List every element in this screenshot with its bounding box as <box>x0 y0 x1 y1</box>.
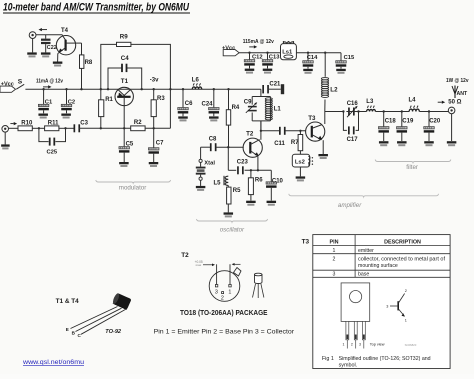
svg-text:R11: R11 <box>48 120 59 126</box>
svg-text:1W @ 12v: 1W @ 12v <box>446 78 469 84</box>
resistor R10 <box>18 126 32 131</box>
NPN transistor symbol <box>390 294 405 317</box>
svg-text:L1: L1 <box>274 106 282 112</box>
ground below C18 <box>379 141 389 146</box>
svg-text:L3: L3 <box>366 99 374 105</box>
svg-text:TO-92: TO-92 <box>105 329 122 335</box>
svg-text:DESCRIPTION: DESCRIPTION <box>384 239 421 245</box>
antenna jack <box>448 107 455 114</box>
current arrow mid <box>249 45 257 48</box>
svg-text:symbol.: symbol. <box>339 362 358 368</box>
svg-text:C13: C13 <box>269 55 280 61</box>
svg-text:SC06820: SC06820 <box>405 343 417 347</box>
resistor R6 <box>248 170 253 200</box>
wire mic to T4 base <box>36 35 66 41</box>
svg-text:R8: R8 <box>85 60 93 66</box>
svg-text:R2: R2 <box>134 120 142 126</box>
capacitor C24 <box>209 89 220 116</box>
ground below C2 <box>61 114 71 119</box>
ground below R5 <box>224 212 234 217</box>
svg-text:L2: L2 <box>330 87 338 94</box>
wire L4 to antenna <box>419 111 448 113</box>
junction dots on modulator line <box>100 127 102 129</box>
ground below C6 <box>178 116 188 121</box>
ground below T4 emitter <box>53 62 63 67</box>
wire Ls2 to ground <box>299 167 301 176</box>
ground below C10 <box>267 201 277 206</box>
modulator brace <box>96 180 171 183</box>
svg-text:50 Ω: 50 Ω <box>448 100 461 106</box>
svg-text:Simplified outline (TO-126; SO: Simplified outline (TO-126; SOT32) and <box>339 356 431 362</box>
resistor R1 <box>99 89 104 128</box>
svg-text:amplifier: amplifier <box>338 202 362 209</box>
svg-text:Pin 1 = Emitter Pin 2 = Base: Pin 1 = Emitter Pin 2 = Base Pin 3 = Col… <box>154 329 295 336</box>
svg-text:3: 3 <box>215 290 218 296</box>
title text <box>3 2 190 14</box>
ground below C1 <box>38 114 48 119</box>
capacitor C18 <box>378 112 389 142</box>
svg-text:C16: C16 <box>347 101 359 107</box>
tank circuit loop <box>252 97 270 121</box>
svg-text:S: S <box>18 78 23 85</box>
svg-text:C22: C22 <box>47 45 57 51</box>
svg-text:3: 3 <box>359 343 361 347</box>
microphone input jack <box>29 32 36 39</box>
svg-text:C8: C8 <box>209 137 217 143</box>
wire Ls1 to C15 <box>296 52 341 54</box>
table row 3 <box>333 272 370 278</box>
junction dots filter line <box>383 110 385 112</box>
ground below C5 <box>119 162 128 167</box>
wire R10 to R11 <box>32 127 44 129</box>
ground below C12 <box>245 69 255 74</box>
resistor R7 <box>298 131 303 154</box>
svg-text:C7: C7 <box>156 140 164 146</box>
ground below mic <box>27 52 37 57</box>
svg-text:T2: T2 <box>181 252 189 259</box>
inductor L6 <box>192 83 201 89</box>
resistor R9 feedback loop <box>101 42 171 89</box>
dimension arrow left <box>203 264 215 267</box>
choke Ls1 <box>281 41 297 60</box>
resistor R3 <box>151 89 156 128</box>
svg-text:C24: C24 <box>202 102 214 108</box>
crystal Xtal <box>196 147 206 186</box>
svg-text:+Vcc: +Vcc <box>1 82 14 88</box>
svg-text:1: 1 <box>333 248 336 254</box>
junction dots C16 pair <box>342 110 344 112</box>
svg-text:C20: C20 <box>429 118 441 124</box>
transistor T4 <box>56 36 81 55</box>
junction dot R7 top <box>299 130 301 132</box>
svg-text:T1 & T4: T1 & T4 <box>56 298 80 305</box>
junction dot C8 line <box>227 146 229 148</box>
wire T2 base <box>242 146 244 148</box>
svg-text:C15: C15 <box>344 55 355 61</box>
svg-text:C10: C10 <box>272 178 284 184</box>
link www.qsl.net/on6mu <box>22 360 84 366</box>
capacitor C3 <box>74 124 81 132</box>
capacitor C4 loop <box>108 64 142 89</box>
wire T3 emitter to ground <box>322 140 324 154</box>
svg-text:R1: R1 <box>105 97 113 103</box>
antenna symbol <box>452 86 458 99</box>
resistor R5 <box>227 185 231 212</box>
inductor L3 <box>367 109 376 111</box>
capacitor C5 <box>119 128 130 162</box>
ground below C19 <box>397 141 407 146</box>
output arrow <box>438 101 446 104</box>
svg-text:R7: R7 <box>291 140 299 146</box>
svg-text:L6: L6 <box>192 77 200 83</box>
resistor R4 <box>226 89 230 147</box>
svg-text:3: 3 <box>386 305 388 309</box>
ground below C20 <box>424 141 434 146</box>
T3 pin table <box>313 235 450 369</box>
capacitor C11 <box>261 127 306 135</box>
filter brace <box>375 160 451 163</box>
svg-text:R9: R9 <box>120 33 128 40</box>
junction dots on Vcc2 line <box>248 52 250 54</box>
resistor R8 <box>80 43 84 89</box>
svg-text:2: 2 <box>351 343 353 347</box>
current arrow on rail <box>43 85 52 88</box>
junction dot R6 top <box>250 169 252 171</box>
svg-text:TO18 (TO-206AA) PACKAGE: TO18 (TO-206AA) PACKAGE <box>180 310 268 317</box>
transistor T3 <box>306 122 325 141</box>
svg-text:R5: R5 <box>233 188 241 194</box>
wire T2 collector up <box>260 121 262 140</box>
wire L2 to T3 <box>324 100 326 112</box>
svg-text:Xtal: Xtal <box>204 161 215 167</box>
oscillator brace <box>197 219 268 222</box>
ground below C7 <box>149 162 159 167</box>
ground below C13 <box>263 69 273 74</box>
junction dot emitter line <box>257 169 259 171</box>
wire mic stem <box>32 39 34 53</box>
wire L3 to L4 <box>375 111 409 113</box>
wire jack stem to ground <box>4 132 6 144</box>
capacitor C20 <box>424 112 435 142</box>
svg-text:C19: C19 <box>402 118 414 124</box>
svg-text:R4: R4 <box>232 105 240 111</box>
wire Vcc2 line <box>239 52 280 54</box>
TO18 side view icon <box>253 273 264 298</box>
capacitor C25 loop <box>39 128 66 145</box>
svg-text:1: 1 <box>228 290 231 296</box>
svg-text:C1: C1 <box>45 100 53 106</box>
TO-126 package outline <box>341 283 370 349</box>
ground below C24 <box>209 116 219 121</box>
capacitor C7 <box>148 128 159 162</box>
inductor L5 <box>224 176 228 186</box>
ground below C15 <box>336 69 346 74</box>
svg-text:C23: C23 <box>237 159 249 165</box>
svg-text:C14: C14 <box>307 55 318 61</box>
svg-text:collector, connected to metal: collector, connected to metal part of <box>358 256 446 262</box>
svg-text:E: E <box>66 327 69 332</box>
input jack <box>2 126 9 133</box>
svg-text:C11: C11 <box>274 141 285 147</box>
svg-text:C18: C18 <box>385 118 397 124</box>
capacitor C8 <box>201 143 244 151</box>
ground below Xtal <box>196 186 206 191</box>
svg-text:2: 2 <box>333 256 336 262</box>
capacitor C15 <box>336 53 347 69</box>
svg-text:filter: filter <box>406 164 418 171</box>
svg-text:L5: L5 <box>214 181 222 187</box>
svg-text:2: 2 <box>221 296 224 302</box>
variable capacitor C16 <box>348 108 355 116</box>
svg-text:L4: L4 <box>409 98 417 104</box>
wire input line <box>9 127 19 129</box>
choke Ls2 <box>292 154 313 167</box>
svg-text:115mA @ 12v: 115mA @ 12v <box>243 39 275 45</box>
TO18 package top view <box>209 264 241 301</box>
wire R11 to C3 <box>59 127 74 129</box>
capacitor C12 <box>244 53 255 69</box>
resistor R2 <box>131 126 145 131</box>
svg-text:R3: R3 <box>157 96 165 102</box>
ground below C22 <box>41 52 51 57</box>
svg-text:base: base <box>358 272 369 278</box>
svg-text:Ls2: Ls2 <box>295 159 305 165</box>
resistor R11 <box>45 126 59 131</box>
ground below R6 <box>246 201 256 206</box>
svg-text:oscillator: oscillator <box>220 227 245 234</box>
table row 1 <box>333 248 375 254</box>
svg-text:C3: C3 <box>80 120 88 126</box>
svg-text:Fig 1: Fig 1 <box>322 356 334 362</box>
ground below antenna <box>447 141 457 146</box>
svg-text:mounting surface: mounting surface <box>358 263 398 269</box>
svg-text:3: 3 <box>333 272 336 278</box>
capacitor C2 <box>61 89 72 113</box>
input arrow <box>10 122 17 125</box>
capacitor C10 <box>266 170 277 200</box>
wire right column down <box>169 89 171 128</box>
svg-text:C6: C6 <box>185 101 193 107</box>
svg-text:C17: C17 <box>347 137 359 143</box>
inductor L2 <box>324 53 326 77</box>
capacitor C22 <box>41 35 51 53</box>
inductor L1 <box>265 98 272 120</box>
svg-text:C25: C25 <box>47 149 58 155</box>
inductor L4 <box>409 109 419 111</box>
capacitor C19 <box>397 112 408 142</box>
svg-text:C4: C4 <box>121 55 129 62</box>
svg-text:C21: C21 <box>269 81 281 87</box>
svg-text:modulator: modulator <box>119 185 147 192</box>
mic signal arrow <box>39 28 48 31</box>
svg-text:T3: T3 <box>308 115 316 122</box>
capacitor C6 <box>178 89 189 116</box>
svg-text:emitter: emitter <box>358 248 374 254</box>
svg-text:PIN: PIN <box>330 239 339 245</box>
capacitor C13 <box>262 53 273 69</box>
svg-text:R10: R10 <box>21 120 33 126</box>
wire R2 to R3 column <box>145 127 170 129</box>
svg-text:T4: T4 <box>61 28 69 34</box>
svg-text:T3: T3 <box>302 239 310 246</box>
dimension arrow right <box>232 263 241 266</box>
amplifier brace <box>289 194 439 197</box>
ground below input jack <box>1 144 10 149</box>
svg-text:C9: C9 <box>244 100 252 106</box>
transistor T1 <box>115 87 133 105</box>
TO-92 package drawing <box>112 292 132 309</box>
junction dot C11 line <box>260 130 262 132</box>
svg-text:10-meter band AM/CW Transmitte: 10-meter band AM/CW Transmitter, by ON6M… <box>3 2 189 14</box>
svg-text:max: max <box>196 263 202 267</box>
supply +Vcc flag left <box>0 86 16 92</box>
svg-text:ANT: ANT <box>457 91 468 97</box>
wire T3 collector up to L2 <box>324 112 326 125</box>
svg-text:1: 1 <box>405 319 407 323</box>
wire C3 to modulator line <box>79 127 131 129</box>
switch S lever <box>16 84 24 89</box>
svg-text:+Vcc: +Vcc <box>222 45 235 51</box>
ground below T3 emitter <box>318 154 328 159</box>
capacitor C17 parallel loop <box>343 112 358 135</box>
svg-text:C2: C2 <box>68 100 75 106</box>
capacitor C14 <box>303 53 314 69</box>
svg-text:2: 2 <box>405 289 407 293</box>
svg-text:C12: C12 <box>252 55 263 61</box>
supply +Vcc flag middle <box>223 50 239 56</box>
wire Vcc rail <box>25 88 261 90</box>
capacitor C21 <box>262 85 281 93</box>
wire T1 emitter down <box>123 98 125 128</box>
wire R4 column to C23 <box>227 147 229 170</box>
wire antenna jack to ground <box>451 114 453 141</box>
ground below C14 <box>303 69 313 74</box>
wire to L3 <box>346 111 366 113</box>
svg-text:C5: C5 <box>126 141 134 147</box>
wire tank bottom to collector junction <box>260 121 262 131</box>
svg-text:1: 1 <box>343 343 345 347</box>
wire tank top to rail corner <box>260 89 262 96</box>
svg-text:Ls1: Ls1 <box>282 50 293 56</box>
table row 2 <box>333 256 446 269</box>
wire T2 emitter down <box>257 156 259 170</box>
wire T4 emitter to ground <box>57 53 59 61</box>
ground wall for C21 <box>281 84 284 94</box>
ground below Ls2 <box>296 176 306 181</box>
transistor T2 <box>243 138 262 157</box>
capacitor C1 <box>38 89 49 113</box>
junction dots on Vcc rail <box>42 88 44 90</box>
svg-text:Top view: Top view <box>370 342 385 346</box>
variable capacitor C9 <box>248 106 257 112</box>
svg-text:R6: R6 <box>255 177 263 183</box>
svg-text:-3v: -3v <box>150 78 159 84</box>
svg-text:11mA @ 12v: 11mA @ 12v <box>36 78 64 84</box>
capacitor C23 <box>228 166 271 174</box>
junction dots on input line <box>38 127 40 129</box>
svg-text:T1: T1 <box>121 78 129 85</box>
wire amplifier output line <box>325 111 344 113</box>
svg-text:T2: T2 <box>246 131 254 138</box>
